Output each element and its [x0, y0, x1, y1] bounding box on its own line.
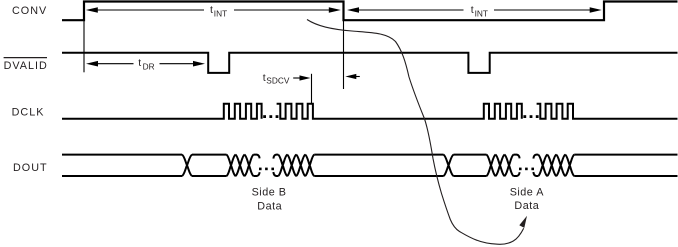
svg-text:INT: INT: [214, 8, 227, 18]
svg-text:Data: Data: [514, 200, 539, 212]
dimension arrow t_INT (first integration period): [86, 7, 341, 13]
node: DOUT side A data transitions (four X): [538, 155, 574, 176]
node: DOUT side B data transitions (four X): [278, 155, 314, 176]
dimension arrow t_INT (second integration period): [347, 7, 602, 13]
wire: DOUT bus break stub before dots: [254, 155, 260, 176]
ellipsis dots (DCLK continues, side A): [523, 115, 538, 118]
svg-text:t: t: [210, 4, 213, 16]
wire: DOUT bus break stub after dots (side A): [533, 155, 538, 176]
value label t_SDCV: [263, 72, 290, 85]
wire: DCLK waveform left burst (first 4 clocks): [62, 104, 262, 119]
node: CONV falling-edge reference line (extends down): [343, 20, 345, 89]
svg-text:DCLK: DCLK: [12, 107, 45, 119]
signal label DOUT: [13, 162, 48, 174]
value label t_INT (first): [210, 4, 227, 18]
svg-text:t: t: [138, 57, 141, 69]
wire: DOUT bus break stub before dots (side A): [514, 155, 520, 176]
svg-text:t: t: [471, 4, 474, 16]
ellipsis dots (DCLK continues, side B): [263, 115, 278, 118]
svg-text:Data: Data: [257, 200, 282, 212]
wire: CONV waveform: [62, 2, 678, 21]
ellipsis dots (DOUT continues, side B): [259, 168, 274, 171]
wire: DOUT bus rails segment 2: [192, 155, 227, 176]
signal label CONV: [12, 5, 47, 17]
svg-text:DR: DR: [143, 61, 155, 71]
svg-text:CONV: CONV: [12, 5, 47, 17]
wire: DOUT bus rails segment 4: [454, 155, 487, 176]
wire: DOUT bus rails segment 1: [62, 155, 182, 176]
dimension arrow t_SDCV left (points right): [293, 75, 310, 80]
dimension arrow t_SDCV right (points left at CONV edge): [345, 74, 360, 79]
signal label DVALID (active low, overbar): [4, 58, 48, 73]
svg-text:DOUT: DOUT: [13, 162, 48, 174]
wire: DCLK waveform right (last clocks of side A burst then idle low): [537, 104, 678, 119]
svg-text:SDCV: SDCV: [266, 75, 290, 85]
wire: DCLK waveform middle (last clocks of side B burst then idle low): [277, 104, 522, 119]
value label t_INT (second): [471, 4, 488, 18]
wire: DOUT bus break stub after dots: [273, 155, 278, 176]
signal label DCLK: [12, 107, 45, 119]
ellipsis dots (DOUT continues, side A): [519, 168, 534, 171]
node: DOUT transition X2: [444, 155, 454, 176]
node label Side A Data: [510, 186, 545, 212]
svg-text:DVALID: DVALID: [4, 60, 48, 72]
wire: curved annotation arrow from first conversion to Side A data: [307, 20, 527, 245]
node label Side B Data: [252, 186, 287, 212]
node: DOUT side A data transitions (three X): [487, 155, 514, 176]
svg-text:Side A: Side A: [510, 186, 545, 198]
dimension arrow t_DR (data ready time): [86, 61, 205, 67]
node: t_SDCV reference line at last DCLK falling edge: [311, 74, 313, 103]
svg-text:INT: INT: [475, 8, 488, 18]
wire: DOUT bus rails segment 3 (between bursts): [314, 155, 443, 176]
node: CONV rising-edge reference line (extends to DVALID row): [83, 20, 85, 72]
wire: DOUT bus rails segment 5 (to right edge): [574, 155, 677, 176]
node: DOUT transition X1: [182, 155, 192, 176]
wire: DVALID waveform: [62, 53, 678, 73]
svg-text:Side B: Side B: [252, 186, 287, 198]
node: DOUT side B data transitions (three X): [227, 155, 254, 176]
value label t_DR: [138, 57, 154, 71]
